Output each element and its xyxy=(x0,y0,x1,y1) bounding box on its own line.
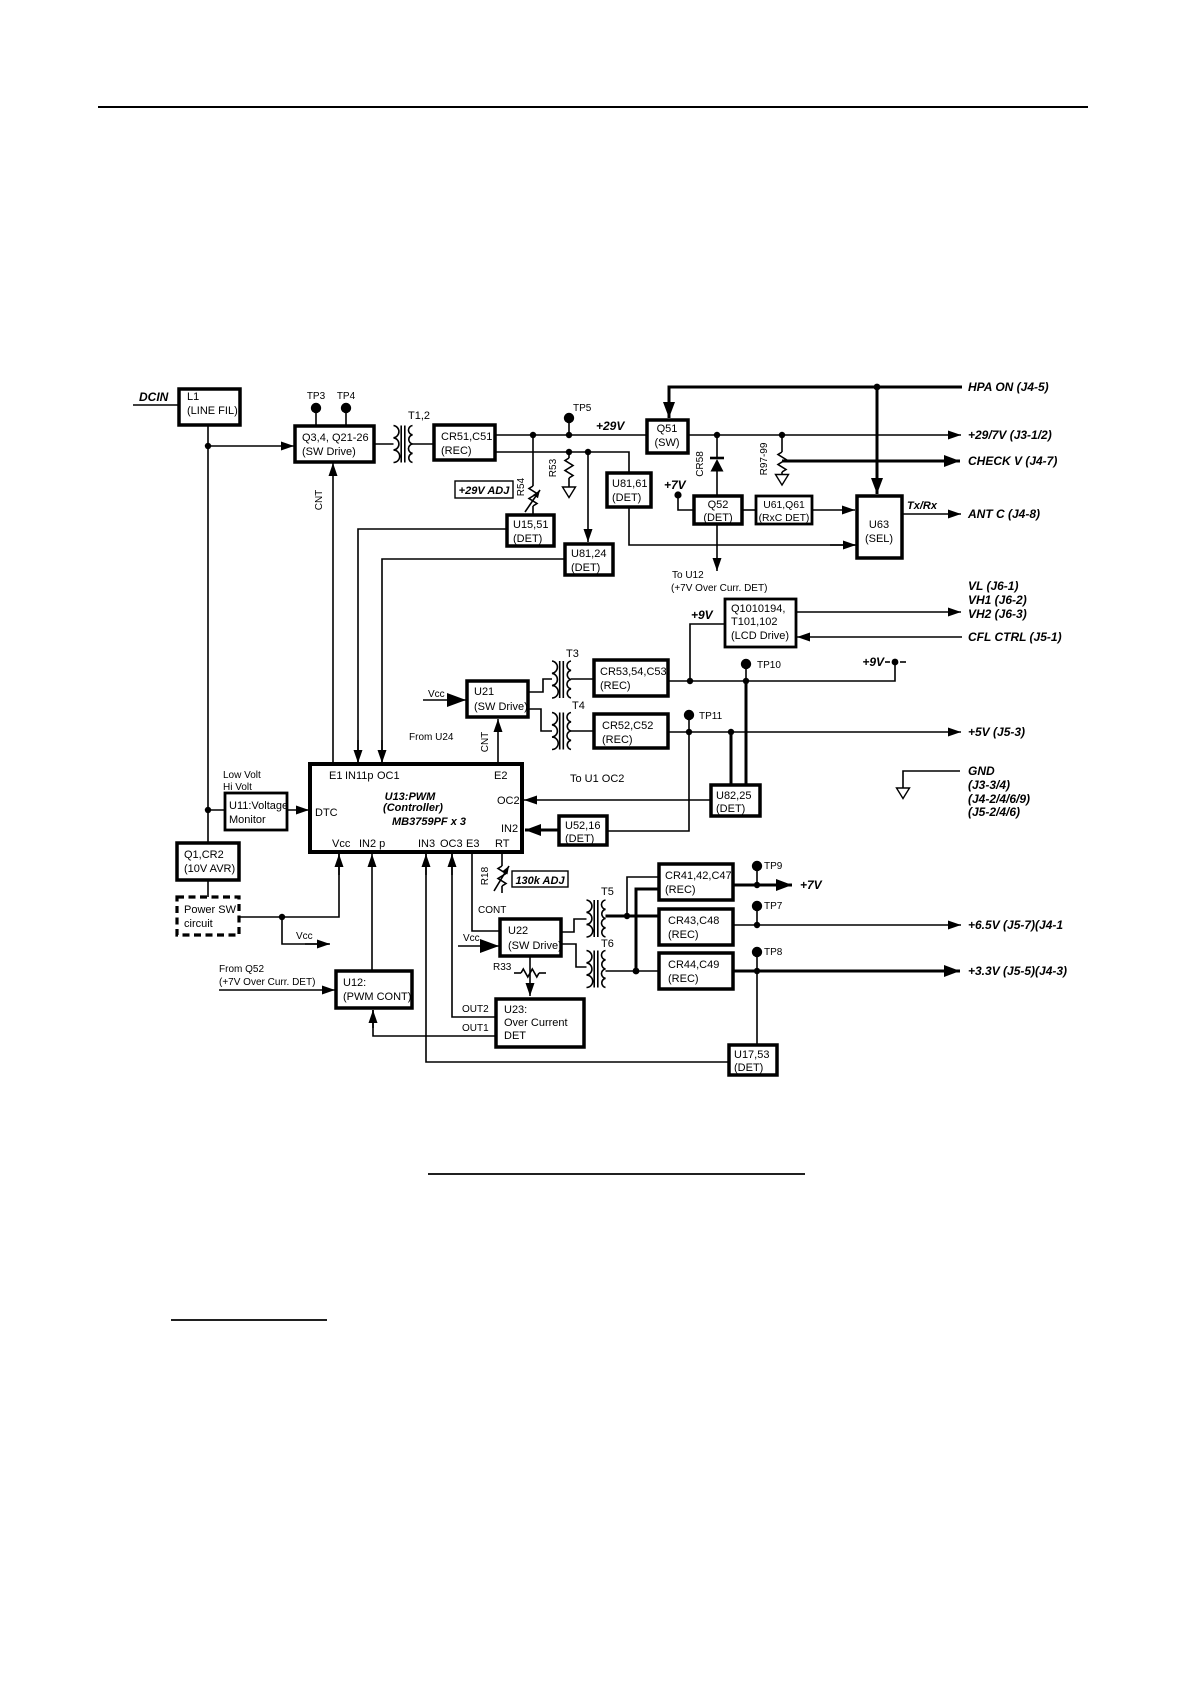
svg-text:+7V: +7V xyxy=(800,878,823,892)
svg-text:CFL CTRL (J5-1): CFL CTRL (J5-1) xyxy=(968,630,1062,644)
svg-text:R33: R33 xyxy=(493,962,512,973)
svg-text:DTC: DTC xyxy=(315,807,338,819)
wire HPA ON xyxy=(669,387,962,417)
svg-text:Over Current: Over Current xyxy=(504,1017,568,1029)
svg-text:From Q52: From Q52 xyxy=(219,964,264,975)
svg-text:TP3: TP3 xyxy=(307,391,326,402)
svg-text:U21: U21 xyxy=(474,686,494,698)
detector U82,25 (DET) xyxy=(711,785,760,816)
wire +3.3V down to U17,53 xyxy=(756,971,758,1045)
svg-text:CNT: CNT xyxy=(314,490,325,511)
svg-text:(J5-2/4/6): (J5-2/4/6) xyxy=(968,805,1020,819)
rectifier CR51,C51 (REC) xyxy=(434,425,495,460)
detector U52,16 (DET) xyxy=(559,816,607,845)
wire into Q3,4 xyxy=(208,445,294,447)
svg-text:HPA ON (J4-5): HPA ON (J4-5) xyxy=(968,380,1049,394)
svg-text:(+7V Over Curr. DET): (+7V Over Curr. DET) xyxy=(219,977,315,988)
svg-text:U17,53: U17,53 xyxy=(734,1049,769,1061)
svg-text:GND: GND xyxy=(968,764,995,778)
svg-text:CNT: CNT xyxy=(480,732,491,753)
wire U52,16 to IN2 xyxy=(525,829,559,832)
diode CR58 xyxy=(716,435,718,458)
wire CHECK V xyxy=(782,460,960,463)
svg-text:TP8: TP8 xyxy=(764,947,783,958)
page top rule xyxy=(98,106,1088,108)
resistor R53 xyxy=(568,452,570,458)
test point TP3 xyxy=(315,410,317,426)
svg-text:IN2: IN2 xyxy=(501,823,518,835)
svg-text:R97-99: R97-99 xyxy=(759,442,770,475)
wire +29V rail xyxy=(495,434,647,436)
svg-text:OC2: OC2 xyxy=(497,795,520,807)
svg-text:U52,16: U52,16 xyxy=(565,820,600,832)
wire U81,61 to U63 xyxy=(629,507,855,545)
svg-text:OUT2: OUT2 xyxy=(462,1004,489,1015)
wire U17,53 to IN3 xyxy=(426,854,729,1062)
wire +5V output xyxy=(668,731,961,733)
controller U13:PWM MB3759PF x 3 xyxy=(310,764,522,852)
svg-text:TP11: TP11 xyxy=(699,711,723,722)
detector U81,61 (DET) xyxy=(607,473,651,507)
svg-text:CR52,C52: CR52,C52 xyxy=(602,720,653,732)
svg-text:CR51,C51: CR51,C51 xyxy=(441,431,492,443)
svg-text:Vcc: Vcc xyxy=(463,933,480,944)
junction xyxy=(205,807,211,813)
label +29V ADJ xyxy=(455,481,513,498)
svg-text:(REC): (REC) xyxy=(600,680,631,692)
wire T6 secondary xyxy=(606,970,660,972)
svg-text:U11:Voltage: U11:Voltage xyxy=(229,800,288,812)
wire U81,24 to OC1 xyxy=(382,559,565,762)
caption underline xyxy=(428,1173,805,1175)
svg-text:TP9: TP9 xyxy=(764,861,783,872)
svg-text:TP5: TP5 xyxy=(573,403,592,414)
svg-text:T101,102: T101,102 xyxy=(731,616,777,628)
wire ANT C xyxy=(902,513,961,515)
svg-text:Q51: Q51 xyxy=(657,423,678,435)
test point TP4 xyxy=(345,410,347,426)
svg-text:Q3,4, Q21-26: Q3,4, Q21-26 xyxy=(302,432,369,444)
svg-text:circuit: circuit xyxy=(184,918,213,930)
section underline xyxy=(171,1319,327,1321)
wire Power SW to U13 Vcc xyxy=(239,854,339,917)
svg-text:Q1010194,: Q1010194, xyxy=(731,603,785,615)
svg-text:(LCD Drive): (LCD Drive) xyxy=(731,630,789,642)
inductor L1 (LINE FIL) xyxy=(179,389,240,425)
svg-text:(RxC DET): (RxC DET) xyxy=(759,513,810,524)
transistor Q3,4, Q21-26 (SW Drive) xyxy=(295,426,374,462)
svg-text:Low Volt: Low Volt xyxy=(223,770,261,781)
svg-text:RT: RT xyxy=(495,838,510,850)
svg-text:E1: E1 xyxy=(329,770,342,782)
wire +5V down to U82,25 xyxy=(730,732,733,785)
svg-text:(SEL): (SEL) xyxy=(865,533,893,545)
wire DCIN to L1 xyxy=(133,404,179,406)
wire U12 to IN2p xyxy=(371,854,373,971)
sw driver U22 (SW Drive) xyxy=(500,919,561,956)
svg-text:E2: E2 xyxy=(494,770,507,782)
svg-text:Hi Volt: Hi Volt xyxy=(223,782,252,793)
pwm control U12 (PWM CONT) xyxy=(336,971,412,1008)
svg-text:From U24: From U24 xyxy=(409,732,454,743)
test point TP9 xyxy=(756,868,758,885)
svg-text:+7V: +7V xyxy=(664,478,687,492)
sw driver U21 (SW Drive) xyxy=(467,681,528,717)
svg-text:TP7: TP7 xyxy=(764,901,783,912)
svg-text:VH1 (J6-2): VH1 (J6-2) xyxy=(968,593,1027,607)
svg-text:R54: R54 xyxy=(516,477,527,496)
svg-text:T1,2: T1,2 xyxy=(408,410,430,422)
svg-text:U82,25: U82,25 xyxy=(716,790,751,802)
svg-text:(DET): (DET) xyxy=(716,803,745,815)
svg-text:CR58: CR58 xyxy=(695,451,706,477)
svg-text:Vcc: Vcc xyxy=(296,931,313,942)
svg-text:VH2 (J6-3): VH2 (J6-3) xyxy=(968,607,1027,621)
transistor Q51 (SW) xyxy=(647,420,688,453)
detector U81,24 (DET) xyxy=(565,544,613,575)
svg-text:To U12: To U12 xyxy=(672,570,704,581)
svg-text:TP4: TP4 xyxy=(337,391,356,402)
transformer T1,2 xyxy=(374,443,394,445)
svg-text:T4: T4 xyxy=(572,700,585,712)
detector Q52 (DET) xyxy=(694,496,742,524)
wire CNT up into Q3,4 / E1 line xyxy=(332,463,334,764)
node +9V terminal xyxy=(892,659,899,666)
wire E2 to U21 (CNT) xyxy=(497,719,499,764)
wire down to U63 xyxy=(876,387,879,494)
rectifier CR44,C49 (REC) xyxy=(659,953,733,989)
svg-text:(REC): (REC) xyxy=(441,445,472,457)
svg-text:Q1,CR2: Q1,CR2 xyxy=(184,849,224,861)
svg-text:(10V AVR): (10V AVR) xyxy=(184,863,235,875)
detector U61,Q61 (RxC DET) xyxy=(756,496,812,524)
svg-text:Tx/Rx: Tx/Rx xyxy=(907,500,938,512)
wire +29/7V output xyxy=(688,434,961,436)
transformer T5 xyxy=(587,900,606,937)
wire E3 CONT to U22 xyxy=(472,852,500,931)
svg-text:CR53,54,C53: CR53,54,C53 xyxy=(600,666,667,678)
svg-text:CR44,C49: CR44,C49 xyxy=(668,959,719,971)
rectifier CR43,C48 (REC) xyxy=(659,909,733,945)
svg-text:+29V ADJ: +29V ADJ xyxy=(459,485,511,497)
svg-text:+3.3V (J5-5)(J4-3): +3.3V (J5-5)(J4-3) xyxy=(968,964,1067,978)
svg-text:+5V (J5-3): +5V (J5-3) xyxy=(968,725,1025,739)
resistor R18 (adjustable) xyxy=(501,852,503,866)
svg-text:(DET): (DET) xyxy=(703,512,732,524)
transformer T3 xyxy=(552,661,571,698)
wire down into U81,24 xyxy=(587,452,589,542)
test point TP7 xyxy=(756,908,758,925)
rectifier CR52,C52 (REC) xyxy=(594,714,668,748)
svg-text:+29V: +29V xyxy=(596,419,625,433)
svg-text:(+7V Over Curr. DET): (+7V Over Curr. DET) xyxy=(671,583,767,594)
wire Q1,CR2 to Power SW xyxy=(207,880,209,897)
svg-text:IN2 p: IN2 p xyxy=(359,838,385,850)
svg-text:+6.5V (J5-7)(J4-1: +6.5V (J5-7)(J4-1 xyxy=(968,918,1063,932)
svg-text:CHECK V (J4-7): CHECK V (J4-7) xyxy=(968,454,1057,468)
svg-text:(SW): (SW) xyxy=(654,437,679,449)
svg-text:L1: L1 xyxy=(187,391,199,403)
wire +9V rail xyxy=(668,662,895,681)
wire +7V output xyxy=(733,884,792,887)
svg-text:R53: R53 xyxy=(548,458,559,477)
junction xyxy=(205,443,211,449)
test point TP8 xyxy=(756,954,758,971)
detector U17,53 (DET) xyxy=(729,1045,777,1075)
svg-text:(SW Drive): (SW Drive) xyxy=(302,446,356,458)
wire +6.5V output xyxy=(733,924,961,926)
wire to CR41 input 2 xyxy=(636,889,659,971)
svg-text:(REC): (REC) xyxy=(602,734,633,746)
test point TP10 xyxy=(745,666,747,681)
wire U82,25 to OC2 xyxy=(524,799,711,801)
svg-text:Monitor: Monitor xyxy=(229,814,266,826)
svg-text:(DET): (DET) xyxy=(565,833,594,845)
wire T5 secondary xyxy=(606,915,660,918)
svg-text:(REC): (REC) xyxy=(668,973,699,985)
svg-text:Vcc: Vcc xyxy=(332,838,351,850)
test point TP11 xyxy=(688,717,690,732)
svg-text:VL (J6-1): VL (J6-1) xyxy=(968,579,1018,593)
svg-text:MB3759PF x 3: MB3759PF x 3 xyxy=(392,816,466,828)
svg-text:(PWM CONT): (PWM CONT) xyxy=(343,991,411,1003)
svg-text:(J3-3/4): (J3-3/4) xyxy=(968,778,1010,792)
svg-text:IN3: IN3 xyxy=(418,838,435,850)
resistor R54 (adjustable) xyxy=(532,435,534,486)
svg-text:(DET): (DET) xyxy=(513,533,542,545)
wire +9V down to U82,25 xyxy=(745,681,748,785)
resistor R97-99 xyxy=(781,435,783,452)
svg-text:OC1: OC1 xyxy=(377,770,400,782)
svg-text:DCIN: DCIN xyxy=(139,390,169,404)
wire VH2 output xyxy=(796,611,961,613)
svg-text:T6: T6 xyxy=(601,938,614,950)
svg-text:OC3: OC3 xyxy=(440,838,463,850)
wire +29V lower rail xyxy=(495,452,629,473)
selector U63 (SEL) xyxy=(857,496,902,558)
ground xyxy=(903,771,960,788)
svg-text:(SW Drive): (SW Drive) xyxy=(474,701,528,713)
svg-text:To U1 OC2: To U1 OC2 xyxy=(570,773,624,785)
wire OUT2 U23 to OC3 xyxy=(452,854,496,1017)
svg-text:U81,24: U81,24 xyxy=(571,548,606,560)
wire U61 to U63 xyxy=(812,509,855,511)
wire Q52 to U12 xyxy=(716,524,718,571)
label 130k ADJ xyxy=(512,871,568,887)
svg-text:(DET): (DET) xyxy=(571,562,600,574)
svg-text:U12:: U12: xyxy=(343,977,366,989)
svg-text:CR43,C48: CR43,C48 xyxy=(668,915,719,927)
svg-text:E3: E3 xyxy=(466,838,479,850)
transformer T6 xyxy=(587,951,606,988)
svg-text:(J4-2/4/6/9): (J4-2/4/6/9) xyxy=(968,792,1030,806)
svg-text:DET: DET xyxy=(504,1030,526,1042)
svg-text:(LINE FIL): (LINE FIL) xyxy=(187,405,238,417)
svg-text:CONT: CONT xyxy=(478,905,506,916)
svg-text:U61,Q61: U61,Q61 xyxy=(763,500,805,511)
svg-text:130k ADJ: 130k ADJ xyxy=(515,875,565,887)
wire L1 down to Q1,CR2 xyxy=(207,425,209,843)
overcurrent detector U23 xyxy=(496,999,584,1047)
svg-text:T5: T5 xyxy=(601,886,614,898)
svg-text:OUT1: OUT1 xyxy=(462,1023,489,1034)
svg-text:U81,61: U81,61 xyxy=(612,478,647,490)
wire Q52 to U61 xyxy=(742,509,756,511)
svg-text:Q52: Q52 xyxy=(708,499,729,511)
wire +5V down to U52,16 xyxy=(607,732,689,831)
wire CFL CTRL input xyxy=(797,636,962,638)
detector U15,51 (DET) xyxy=(507,515,554,546)
svg-text:CR41,42,C47: CR41,42,C47 xyxy=(665,870,732,882)
wire OUT1 U23 to U12 xyxy=(373,1010,496,1036)
wire into U11 xyxy=(208,809,225,811)
svg-text:U15,51: U15,51 xyxy=(513,519,548,531)
svg-text:(REC): (REC) xyxy=(665,884,696,896)
svg-text:TP10: TP10 xyxy=(757,660,781,671)
rectifier CR41,42,C47 (REC) xyxy=(659,864,733,900)
test point TP5 xyxy=(568,420,570,435)
wire U15,51 to IN11p xyxy=(358,529,507,762)
svg-text:T3: T3 xyxy=(566,648,579,660)
regulator Q1,CR2 (10V AVR) xyxy=(177,843,239,880)
svg-text:ANT C (J4-8): ANT C (J4-8) xyxy=(967,507,1040,521)
svg-text:(Controller): (Controller) xyxy=(383,802,443,814)
svg-text:+29/7V (J3-1/2): +29/7V (J3-1/2) xyxy=(968,428,1052,442)
svg-text:U23:: U23: xyxy=(504,1004,527,1016)
wire +3.3V output xyxy=(733,970,960,973)
svg-text:Power SW: Power SW xyxy=(184,904,237,916)
svg-text:Vcc: Vcc xyxy=(428,689,445,700)
wire to CR41 input 1 xyxy=(627,877,659,916)
svg-text:(REC): (REC) xyxy=(668,929,699,941)
svg-text:U63: U63 xyxy=(869,519,889,531)
rectifier CR53,54,C53 (REC) xyxy=(594,660,668,696)
transformer T4 xyxy=(552,713,571,750)
wire U11 to DTC xyxy=(287,809,309,811)
wire Vcc branch xyxy=(282,917,329,944)
LCD driver Q1010194,T101,102 xyxy=(725,599,796,647)
svg-text:(SW Drive): (SW Drive) xyxy=(508,940,562,952)
svg-text:+9V: +9V xyxy=(691,608,714,622)
svg-text:U22: U22 xyxy=(508,925,528,937)
svg-text:R18: R18 xyxy=(480,866,491,885)
svg-text:IN11p: IN11p xyxy=(345,770,374,782)
svg-text:+9V: +9V xyxy=(862,655,885,669)
svg-text:(DET): (DET) xyxy=(734,1062,763,1074)
svg-text:(DET): (DET) xyxy=(612,492,641,504)
resistor R33 xyxy=(529,956,531,996)
Power SW circuit (dashed) xyxy=(177,897,239,935)
